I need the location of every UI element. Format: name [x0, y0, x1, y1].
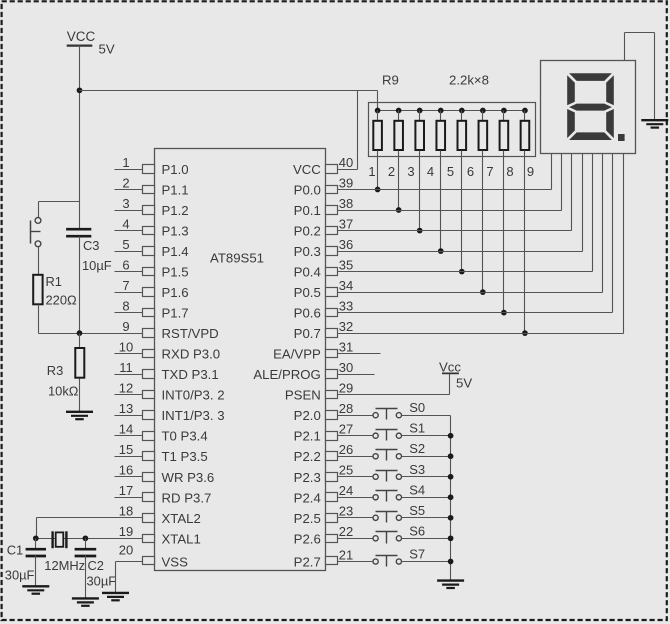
svg-text:RST/VPD: RST/VPD	[162, 326, 219, 341]
svg-text:TXD P3.1: TXD P3.1	[162, 367, 219, 382]
svg-text:Vcc: Vcc	[439, 359, 461, 374]
svg-text:5: 5	[447, 164, 454, 179]
svg-text:S2: S2	[409, 441, 425, 456]
svg-text:30µF: 30µF	[5, 567, 35, 582]
svg-text:220Ω: 220Ω	[46, 293, 78, 308]
svg-text:S4: S4	[409, 482, 425, 497]
svg-text:C1: C1	[7, 542, 23, 557]
svg-text:10kΩ: 10kΩ	[48, 384, 79, 399]
svg-text:P2.6: P2.6	[294, 531, 321, 546]
svg-text:11: 11	[119, 360, 133, 375]
svg-text:15: 15	[119, 442, 133, 457]
svg-text:9: 9	[122, 319, 129, 334]
svg-text:P2.7: P2.7	[294, 555, 321, 570]
svg-text:P1.6: P1.6	[162, 285, 189, 300]
svg-text:P0.7: P0.7	[294, 326, 321, 341]
svg-text:S0: S0	[409, 400, 425, 415]
svg-text:29: 29	[339, 380, 353, 395]
svg-text:S5: S5	[409, 503, 425, 518]
svg-text:P2.4: P2.4	[294, 490, 321, 505]
svg-text:T1 P3.5: T1 P3.5	[162, 449, 208, 464]
svg-text:P0.1: P0.1	[294, 203, 321, 218]
svg-text:P2.3: P2.3	[294, 470, 321, 485]
svg-text:22: 22	[339, 524, 353, 539]
svg-text:3: 3	[407, 164, 414, 179]
svg-text:3: 3	[122, 196, 129, 211]
svg-text:P0.2: P0.2	[294, 224, 321, 239]
svg-text:P2.0: P2.0	[294, 408, 321, 423]
svg-text:2: 2	[388, 164, 395, 179]
svg-text:XTAL2: XTAL2	[162, 511, 201, 526]
svg-text:S1: S1	[409, 421, 425, 436]
svg-text:P0.6: P0.6	[294, 306, 321, 321]
svg-text:P1.3: P1.3	[162, 224, 189, 239]
svg-text:P0.4: P0.4	[294, 265, 321, 280]
svg-text:P1.5: P1.5	[162, 265, 189, 280]
svg-text:8: 8	[506, 164, 513, 179]
svg-text:10: 10	[119, 339, 133, 354]
svg-text:R3: R3	[47, 363, 63, 378]
svg-text:VSS: VSS	[162, 555, 189, 570]
svg-text:40: 40	[339, 155, 353, 170]
svg-text:S6: S6	[409, 523, 425, 538]
svg-text:17: 17	[119, 483, 133, 498]
svg-text:21: 21	[339, 547, 353, 562]
svg-text:7: 7	[122, 278, 129, 293]
svg-text:5V: 5V	[456, 376, 472, 391]
svg-text:AT89S51: AT89S51	[210, 251, 264, 266]
svg-text:4: 4	[122, 216, 129, 231]
svg-text:30: 30	[339, 360, 353, 375]
svg-text:P1.1: P1.1	[162, 183, 189, 198]
svg-text:P0.0: P0.0	[294, 183, 321, 198]
svg-text:VCC: VCC	[67, 29, 96, 44]
svg-text:6: 6	[467, 164, 474, 179]
svg-text:1: 1	[122, 155, 129, 170]
svg-text:34: 34	[339, 278, 353, 293]
svg-text:12MHz: 12MHz	[44, 558, 85, 573]
svg-text:18: 18	[119, 504, 133, 519]
svg-text:INT0/P3. 2: INT0/P3. 2	[162, 388, 225, 403]
svg-text:23: 23	[339, 504, 353, 519]
svg-text:9: 9	[527, 164, 534, 179]
svg-text:13: 13	[119, 401, 133, 416]
svg-text:2: 2	[122, 175, 129, 190]
svg-text:24: 24	[339, 483, 353, 498]
svg-text:38: 38	[339, 196, 353, 211]
svg-text:33: 33	[339, 298, 353, 313]
svg-text:RXD P3.0: RXD P3.0	[162, 347, 221, 362]
svg-text:WR P3.6: WR P3.6	[162, 470, 215, 485]
svg-text:7: 7	[486, 164, 493, 179]
svg-text:35: 35	[339, 257, 353, 272]
svg-text:EA/VPP: EA/VPP	[273, 347, 321, 362]
svg-text:14: 14	[119, 422, 133, 437]
svg-text:30µF: 30µF	[87, 573, 117, 588]
svg-text:P0.3: P0.3	[294, 244, 321, 259]
svg-text:P2.1: P2.1	[294, 429, 321, 444]
svg-text:36: 36	[339, 237, 353, 252]
svg-text:28: 28	[339, 401, 353, 416]
svg-text:P1.2: P1.2	[162, 203, 189, 218]
svg-text:10µF: 10µF	[82, 258, 112, 273]
svg-text:27: 27	[339, 422, 353, 437]
svg-text:R9: R9	[382, 72, 399, 87]
svg-text:P2.2: P2.2	[294, 449, 321, 464]
svg-text:5: 5	[122, 237, 129, 252]
svg-text:T0 P3.4: T0 P3.4	[162, 429, 208, 444]
svg-text:P1.7: P1.7	[162, 306, 189, 321]
svg-text:37: 37	[339, 216, 353, 231]
svg-text:19: 19	[119, 524, 133, 539]
svg-text:39: 39	[339, 175, 353, 190]
svg-text:PSEN: PSEN	[285, 388, 321, 403]
svg-text:6: 6	[122, 257, 129, 272]
svg-text:20: 20	[119, 543, 133, 558]
svg-text:P2.5: P2.5	[294, 511, 321, 526]
svg-text:1: 1	[368, 164, 375, 179]
svg-text:P0.5: P0.5	[294, 285, 321, 300]
svg-text:P1.0: P1.0	[162, 162, 189, 177]
svg-text:RD P3.7: RD P3.7	[162, 490, 212, 505]
svg-text:25: 25	[339, 463, 353, 478]
svg-text:31: 31	[339, 339, 353, 354]
svg-text:12: 12	[119, 380, 133, 395]
svg-text:8: 8	[122, 298, 129, 313]
svg-text:4: 4	[427, 164, 434, 179]
svg-text:5V: 5V	[99, 42, 115, 57]
svg-text:VCC: VCC	[293, 162, 321, 177]
svg-text:S3: S3	[409, 462, 425, 477]
svg-text:2.2k×8: 2.2k×8	[449, 72, 489, 87]
svg-text:P1.4: P1.4	[162, 244, 189, 259]
svg-text:S7: S7	[409, 547, 425, 562]
svg-text:32: 32	[339, 319, 353, 334]
svg-text:INT1/P3. 3: INT1/P3. 3	[162, 408, 225, 423]
svg-text:C2: C2	[88, 558, 104, 573]
svg-text:C3: C3	[83, 238, 99, 253]
svg-text:ALE/PROG: ALE/PROG	[253, 367, 320, 382]
svg-text:26: 26	[339, 442, 353, 457]
svg-text:R1: R1	[46, 274, 62, 289]
svg-text:16: 16	[119, 463, 133, 478]
svg-text:XTAL1: XTAL1	[162, 531, 201, 546]
